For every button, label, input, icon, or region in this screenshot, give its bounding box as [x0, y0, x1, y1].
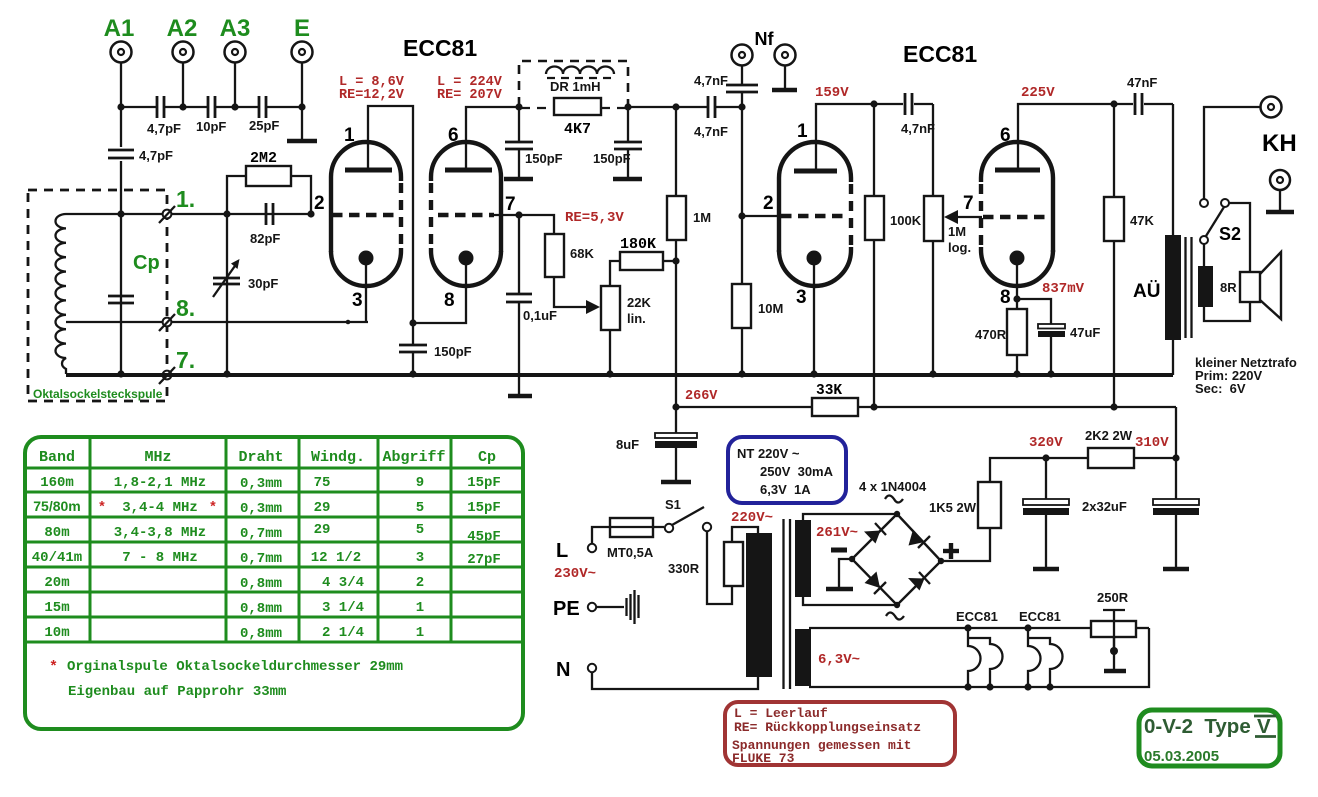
label RE=5,3V — [565, 210, 624, 226]
svg-text:2K2 2W: 2K2 2W — [1085, 428, 1133, 443]
node anode-47K — [1110, 100, 1117, 107]
capacitor 4,7nF interstage2 — [901, 93, 935, 136]
terminal KH1 — [1261, 97, 1282, 118]
terminal KH2 — [1270, 170, 1290, 190]
svg-text:8.: 8. — [176, 295, 195, 321]
wire ground bus — [66, 373, 1173, 377]
AC squiggle top — [885, 496, 903, 503]
node A2-bus — [179, 103, 186, 110]
wire 180K left lead — [610, 261, 620, 286]
svg-text:5: 5 — [416, 500, 424, 516]
grid V1a — [332, 213, 394, 218]
contact slash tap 1. — [159, 206, 175, 223]
label A1 — [104, 15, 135, 42]
svg-text:V: V — [1257, 715, 1271, 738]
node A1-tap1 — [117, 210, 124, 217]
wire heater bottom rail — [809, 628, 1149, 687]
svg-text:230V~: 230V~ — [554, 566, 596, 582]
label 230V~ — [554, 566, 596, 582]
resistor 2M2 — [246, 150, 291, 186]
coil box (Oktalsockelsteckspule, dashed) — [28, 190, 167, 401]
resistor 47K — [1104, 104, 1154, 407]
label ECC81 first — [403, 35, 477, 61]
ground 32uF first — [1033, 567, 1059, 572]
svg-text:8: 8 — [444, 290, 455, 311]
svg-text:RE= Rückkopplungseinsatz: RE= Rückkopplungseinsatz — [734, 720, 921, 735]
contact slash tap 7. — [159, 367, 175, 384]
table footnote 1 — [49, 659, 403, 676]
pin label 8 — [444, 290, 455, 311]
svg-text:3,4-4 MHz: 3,4-4 MHz — [122, 500, 198, 516]
svg-text:3: 3 — [416, 550, 424, 566]
ground Nf2 — [772, 88, 797, 93]
svg-text:*: * — [209, 500, 217, 516]
svg-text:E: E — [294, 15, 310, 42]
svg-text:Sec: 6V: Sec: 6V — [1195, 381, 1246, 396]
wire grid V1b right — [494, 214, 519, 216]
wire A1 stub — [120, 63, 122, 107]
anode V2b — [995, 168, 1040, 173]
label 1. — [176, 186, 195, 212]
wire 47nF to AU primary — [1172, 104, 1174, 375]
svg-text:ECC81: ECC81 — [403, 35, 477, 61]
capacitor 47uF electrolytic — [1017, 299, 1100, 374]
wire antenna bus — [121, 106, 302, 108]
svg-text:320V: 320V — [1029, 435, 1063, 451]
pin label 7 V2b — [963, 193, 974, 214]
anode V2a — [794, 169, 837, 174]
triode V1b envelope — [431, 142, 501, 286]
svg-text:8R: 8R — [1220, 280, 1237, 295]
svg-text:N: N — [556, 659, 570, 681]
terminal Nf1 — [732, 45, 753, 66]
AC squiggle bottom — [886, 613, 904, 620]
node cathode-tap8 — [346, 320, 351, 325]
resistor 10M — [732, 216, 783, 374]
terminal A3 — [225, 42, 246, 63]
svg-text:RE=12,2V: RE=12,2V — [339, 88, 405, 103]
table row 40/41m — [32, 550, 501, 568]
svg-text:Nf: Nf — [755, 29, 775, 49]
label 320V — [1029, 435, 1063, 451]
terminal A2 — [173, 42, 194, 63]
ground KH2 — [1266, 210, 1294, 215]
wire grid V2a — [742, 215, 782, 217]
svg-text:12 1/2: 12 1/2 — [311, 550, 361, 566]
svg-text:22K: 22K — [627, 295, 651, 310]
node 2M2-left — [223, 210, 230, 217]
svg-text:NT 220V ~: NT 220V ~ — [737, 446, 800, 461]
svg-text:0,7mm: 0,7mm — [240, 551, 282, 567]
svg-text:0,8mm: 0,8mm — [240, 601, 282, 617]
label ECC81 second — [903, 41, 977, 67]
svg-text:8: 8 — [1000, 287, 1011, 308]
svg-text:Eigenbau auf Papprohr 33mm: Eigenbau auf Papprohr 33mm — [68, 684, 286, 700]
svg-text:33K: 33K — [816, 383, 842, 399]
wire anode V1b to DR box — [466, 107, 519, 170]
wire A1 down — [120, 107, 122, 374]
ground 0,1uF — [508, 394, 532, 399]
wire E stub — [301, 63, 303, 140]
svg-text:3,4-3,8 MHz: 3,4-3,8 MHz — [114, 525, 206, 541]
label 220V~ — [731, 510, 773, 526]
svg-text:S2: S2 — [1219, 224, 1241, 244]
label A2 — [167, 15, 198, 42]
svg-text:1K5 2W: 1K5 2W — [929, 500, 977, 515]
wire L to fuse — [592, 527, 664, 544]
wire 1K5 to 320V node — [990, 458, 1046, 482]
ground 250R tap — [1104, 669, 1126, 674]
svg-text:6,3V~: 6,3V~ — [818, 652, 860, 668]
wire S2 to KH jack — [1204, 107, 1260, 199]
svg-text:KH: KH — [1262, 130, 1297, 157]
pin label 8 V2b — [1000, 287, 1011, 308]
resistor 470R — [975, 309, 1027, 374]
svg-text:PE: PE — [553, 598, 580, 620]
svg-text:Oktalsockelsteckspule: Oktalsockelsteckspule — [33, 387, 163, 401]
ground bridge minus — [826, 587, 853, 592]
svg-text:15m: 15m — [44, 600, 69, 616]
svg-text:MT0,5A: MT0,5A — [607, 545, 654, 560]
terminal A1 — [111, 42, 132, 63]
svg-text:0,8mm: 0,8mm — [240, 626, 282, 642]
label 266V — [685, 389, 718, 404]
capacitor 150pF cathode — [399, 323, 472, 374]
svg-text:S1: S1 — [665, 497, 681, 512]
anode V1b — [445, 168, 492, 173]
pin label 7 — [505, 194, 516, 215]
capacitor 150pF right — [593, 107, 642, 178]
svg-text:A2: A2 — [167, 15, 198, 42]
pin label 3 V2a — [796, 287, 807, 308]
svg-text:6: 6 — [1000, 125, 1011, 146]
terminal PE — [588, 603, 596, 611]
svg-text:470R: 470R — [975, 327, 1007, 342]
svg-text:2: 2 — [763, 193, 774, 214]
svg-text:29: 29 — [314, 500, 331, 516]
capacitor 10pF — [196, 96, 226, 134]
wire 22K bottom — [609, 330, 611, 374]
wiper arrow 1M log — [944, 210, 982, 224]
svg-text:A1: A1 — [104, 15, 135, 42]
svg-text:47uF: 47uF — [1070, 325, 1100, 340]
capacitor 32uF first — [1023, 458, 1069, 568]
grid V2b dashes — [983, 215, 1047, 220]
wire Nf2 stub — [784, 66, 786, 89]
node 2M2-right — [307, 210, 314, 217]
label N — [556, 659, 570, 681]
svg-text:250R: 250R — [1097, 590, 1129, 605]
svg-text:4K7: 4K7 — [564, 121, 591, 138]
wire HT bottom to bridge — [803, 597, 897, 605]
wire B+ 266V rail — [676, 406, 1176, 408]
capacitor 32uF second — [1153, 458, 1199, 568]
svg-text:250V 30mA: 250V 30mA — [760, 464, 834, 479]
svg-text:7: 7 — [505, 194, 516, 215]
node 47uF-bus — [1047, 370, 1054, 377]
svg-text:5: 5 — [416, 522, 424, 538]
svg-text:0,3mm: 0,3mm — [240, 501, 282, 517]
capacitor 150pF left — [505, 107, 563, 178]
svg-text:159V: 159V — [815, 85, 849, 101]
svg-text:Cp: Cp — [133, 252, 160, 274]
svg-text:Band: Band — [39, 449, 75, 466]
potentiometer 22K lin. — [601, 286, 651, 330]
svg-text:20m: 20m — [44, 575, 69, 591]
svg-text:lin.: lin. — [627, 311, 646, 326]
label S1 — [665, 497, 681, 512]
svg-text:ECC81: ECC81 — [903, 41, 977, 67]
wire 68K to wiper — [554, 277, 592, 307]
svg-text:82pF: 82pF — [250, 231, 280, 246]
svg-text:2x32uF: 2x32uF — [1082, 499, 1127, 514]
grid V1b — [438, 213, 494, 218]
wire minus to ground — [839, 559, 852, 587]
wire PE — [596, 606, 624, 608]
wire S2 right to speaker — [1204, 203, 1250, 321]
wire anode V2a up — [816, 104, 933, 171]
svg-text:MHz: MHz — [144, 449, 171, 466]
svg-text:25pF: 25pF — [249, 118, 279, 133]
resistor 1M — [667, 107, 711, 407]
label Nf — [755, 29, 775, 49]
svg-text:0,7mm: 0,7mm — [240, 526, 282, 542]
contact slash tap 8. — [159, 314, 175, 331]
table row 10m — [44, 625, 424, 642]
svg-text:DR 1mH: DR 1mH — [550, 79, 601, 94]
node A3-bus — [231, 103, 238, 110]
svg-text:4 x 1N4004: 4 x 1N4004 — [859, 479, 927, 494]
svg-text:261V~: 261V~ — [816, 525, 858, 541]
inductor DR 1mH — [546, 67, 614, 95]
resistor 100K — [865, 104, 922, 407]
label 7. — [176, 347, 195, 373]
diode D2 top-right — [909, 530, 931, 549]
node 180K-1M — [672, 257, 679, 264]
transformer AU secondary 8R — [1198, 266, 1237, 307]
svg-text:15pF: 15pF — [467, 475, 501, 491]
node 310V — [1172, 454, 1179, 461]
svg-text:6,3V 1A: 6,3V 1A — [760, 482, 811, 497]
svg-text:30pF: 30pF — [248, 276, 278, 291]
label L=8,6V RE=12,2V — [339, 75, 405, 103]
ground 8uF — [661, 480, 691, 485]
label Oktalsockelsteckspule — [33, 387, 163, 401]
wire anode V1a to node A — [368, 106, 413, 322]
note box legend (red) — [725, 702, 955, 766]
transformer NT primary — [746, 533, 772, 677]
capacitor 47nF — [1127, 75, 1157, 115]
label ECC81 heater1 — [956, 609, 998, 624]
wire A2 stub — [182, 63, 184, 107]
svg-text:47K: 47K — [1130, 213, 1154, 228]
svg-text:100K: 100K — [890, 213, 922, 228]
svg-text:3: 3 — [796, 287, 807, 308]
wire HT top to bridge — [803, 514, 897, 520]
svg-text:310V: 310V — [1135, 435, 1169, 451]
label ECC81 heater2 — [1019, 609, 1061, 624]
rectifier bridge diamond — [849, 511, 944, 608]
label 159V — [815, 85, 849, 101]
svg-text:4,7nF: 4,7nF — [901, 121, 935, 136]
label L — [556, 540, 568, 562]
diode D1 top-left — [864, 523, 886, 544]
wire grid to 68K — [519, 215, 554, 234]
table row 160m — [40, 475, 501, 492]
svg-text:1.: 1. — [176, 186, 195, 212]
node 320V — [1042, 454, 1049, 461]
transformer NT secondary HT — [795, 520, 811, 597]
svg-text:4,7pF: 4,7pF — [147, 121, 181, 136]
label L=224V RE=207V — [437, 75, 503, 103]
fuse MT0,5A — [607, 518, 654, 560]
node 150pF-bus — [409, 370, 416, 377]
svg-text:Abgriff: Abgriff — [382, 449, 445, 466]
node 22K-bus — [606, 370, 613, 377]
node A1-bottom — [117, 370, 124, 377]
svg-text:330R: 330R — [668, 561, 700, 576]
label NT box — [728, 437, 846, 503]
table footnote 2 — [68, 684, 286, 700]
svg-text:160m: 160m — [40, 475, 74, 491]
label KH — [1262, 130, 1297, 157]
speaker 8R — [1240, 252, 1281, 319]
svg-text:150pF: 150pF — [593, 151, 631, 166]
table row 80m — [44, 522, 500, 545]
resistor 2K2 2W — [1046, 448, 1176, 468]
label 310V — [1135, 435, 1169, 451]
svg-text:266V: 266V — [685, 389, 718, 404]
table row 75/80m — [33, 498, 501, 517]
capacitor 0,1uF — [506, 215, 557, 396]
svg-text:3 1/4: 3 1/4 — [322, 600, 364, 616]
wire heater top rail — [809, 627, 1149, 629]
label kleiner Netztrafo — [1195, 355, 1297, 396]
svg-text:2: 2 — [416, 575, 424, 591]
capacitor 8uF electrolytic — [616, 407, 697, 481]
svg-text:A3: A3 — [220, 15, 251, 42]
cathode V2b — [1010, 251, 1025, 310]
label PE — [553, 598, 580, 620]
wire secondary top to S2 — [1203, 244, 1205, 266]
node A junction — [409, 319, 416, 326]
pin label 6 — [448, 125, 459, 146]
cathode V2a — [807, 251, 822, 375]
svg-text:L = Leerlauf: L = Leerlauf — [734, 706, 828, 721]
capacitor 4,7nF series — [694, 96, 728, 139]
coil winding table frame — [25, 437, 523, 729]
node 30pF-bus — [223, 370, 230, 377]
node 47K-rail — [1110, 403, 1117, 410]
label E — [294, 15, 310, 42]
grid V2a dashes — [781, 214, 845, 219]
node DR-right — [624, 103, 631, 110]
svg-text:15pF: 15pF — [467, 500, 501, 516]
transformer AU core — [1186, 237, 1192, 338]
node heater2 top — [1024, 624, 1031, 631]
label 837mV — [1042, 281, 1085, 297]
svg-text:75: 75 — [314, 475, 331, 491]
node 470R-bus — [1013, 370, 1020, 377]
wire 330R to primary — [732, 527, 758, 542]
label A3 — [220, 15, 251, 42]
node heater1 bottom — [964, 683, 993, 690]
wire KH2 stub — [1279, 190, 1281, 211]
pin label 2 — [314, 193, 325, 214]
heater V1 — [968, 628, 1002, 687]
svg-text:80m: 80m — [44, 525, 69, 541]
terminal E — [292, 42, 313, 63]
terminal N — [588, 664, 596, 672]
capacitor 4,7pF shunt — [108, 148, 173, 163]
resistor 68K — [545, 234, 594, 277]
svg-text:150pF: 150pF — [525, 151, 563, 166]
svg-text:RE= 207V: RE= 207V — [437, 88, 503, 103]
svg-text:4,7nF: 4,7nF — [694, 124, 728, 139]
table header row — [39, 449, 496, 466]
svg-text:7 - 8 MHz: 7 - 8 MHz — [122, 550, 198, 566]
svg-text:10M: 10M — [758, 301, 783, 316]
label AU — [1133, 281, 1160, 302]
svg-text:1: 1 — [416, 600, 424, 616]
capacitor Cp — [108, 296, 134, 303]
wire N to primary — [592, 672, 758, 689]
node 250R tap — [1110, 647, 1118, 655]
label 225V — [1021, 85, 1055, 101]
node plate-1M — [672, 103, 679, 110]
potentiometer 250R humdinger — [1091, 610, 1136, 670]
chassis ground PE — [627, 590, 639, 624]
svg-text:225V: 225V — [1021, 85, 1055, 101]
label minus — [831, 548, 847, 553]
svg-text:7.: 7. — [176, 347, 195, 373]
wire 310V up to rail — [1175, 407, 1177, 458]
svg-text:2M2: 2M2 — [250, 150, 277, 167]
svg-text:Draht: Draht — [238, 449, 283, 466]
pin label 2 V2a — [763, 193, 774, 214]
wire coupling down to grid V2a — [741, 107, 743, 216]
node rail-100K — [870, 403, 877, 410]
node anode-100K — [870, 100, 877, 107]
capacitor 25pF — [249, 96, 279, 133]
svg-text:180K: 180K — [620, 236, 656, 253]
svg-text:ECC81: ECC81 — [956, 609, 998, 624]
node Nf-coupling — [738, 103, 745, 110]
node 1Mlog-bus — [929, 370, 936, 377]
svg-text:75/80m: 75/80m — [33, 498, 80, 514]
svg-text:29: 29 — [314, 522, 331, 538]
svg-text:Windg.: Windg. — [311, 449, 365, 466]
capacitor 30pF variable — [213, 259, 278, 297]
pin label 1 — [344, 125, 355, 146]
label plus — [943, 543, 959, 559]
svg-text:10pF: 10pF — [196, 119, 226, 134]
wire 30pF branch — [226, 214, 228, 374]
svg-text:4 3/4: 4 3/4 — [322, 575, 364, 591]
node 10M-bus — [738, 370, 745, 377]
choke DR dashed box — [519, 61, 628, 108]
svg-text:Orginalspule Oktalsockeldurchm: Orginalspule Oktalsockeldurchmesser 29mm — [67, 659, 403, 675]
svg-text:3: 3 — [352, 290, 363, 311]
wire S1 to 330R — [707, 531, 732, 604]
label 2K2 2W — [1085, 428, 1133, 443]
svg-text:1M: 1M — [693, 210, 711, 225]
triode V2b envelope — [981, 142, 1053, 286]
svg-text:L: L — [556, 540, 568, 562]
node cathode V2b — [1013, 295, 1020, 302]
anode V1a — [345, 168, 392, 173]
capacitor 82pF — [250, 203, 280, 246]
